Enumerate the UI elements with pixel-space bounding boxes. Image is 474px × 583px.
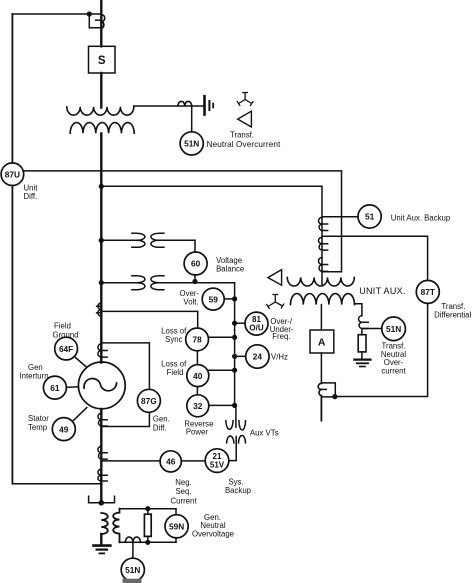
CT generator neutral side (87G lower) xyxy=(98,413,107,426)
wire 78 to bus xyxy=(209,336,235,338)
svg-text:Gen: Gen xyxy=(28,363,43,372)
svg-text:Field: Field xyxy=(54,322,71,331)
label Transf. Differential xyxy=(434,302,471,320)
svg-text:87T: 87T xyxy=(421,287,435,297)
breaker S box xyxy=(89,46,116,73)
wire 64F to generator xyxy=(74,357,86,368)
label Over-/Under-Freq. xyxy=(270,317,294,341)
transformer unit aux HV winding xyxy=(287,277,354,286)
svg-text:Temp: Temp xyxy=(28,423,48,432)
CT generator neutral (87U return) xyxy=(98,469,107,481)
svg-text:46: 46 xyxy=(166,457,176,467)
svg-text:O/U: O/U xyxy=(249,324,263,333)
svg-text:59N: 59N xyxy=(169,522,184,532)
svg-text:Seq.: Seq. xyxy=(175,487,191,496)
CT generator neutral (to 46) xyxy=(98,446,107,459)
svg-text:Neg.: Neg. xyxy=(175,478,191,487)
svg-text:Sync: Sync xyxy=(165,335,182,344)
svg-text:51: 51 xyxy=(365,212,375,222)
wire 21/51V to aux VT xyxy=(229,443,236,461)
wire bus to 81 xyxy=(235,322,245,324)
svg-text:51V: 51V xyxy=(210,461,225,470)
relay 46 negative sequence xyxy=(160,451,181,472)
svg-text:Current: Current xyxy=(171,496,198,505)
wye symbol (GSU HV) xyxy=(237,93,253,106)
junction dot xyxy=(232,296,237,301)
junction dot xyxy=(232,321,237,326)
wire 87U bottom return xyxy=(12,483,101,485)
wire 40 to bus xyxy=(209,369,235,371)
junction dot xyxy=(145,540,150,545)
relay 78 loss of sync xyxy=(186,328,209,351)
CT unit aux neutral (to 51N) xyxy=(359,316,369,329)
relay 87T transformer differential xyxy=(416,280,439,303)
svg-text:Volt.: Volt. xyxy=(183,297,198,306)
label Gen. Diff. xyxy=(153,414,170,432)
label Voltage Balance xyxy=(216,256,244,273)
svg-text:Transf.: Transf. xyxy=(230,131,254,140)
wire to 59N xyxy=(175,509,177,543)
svg-text:Diff.: Diff. xyxy=(24,192,38,201)
svg-text:current: current xyxy=(381,366,406,375)
relay 49 stator temperature xyxy=(52,418,75,441)
wire CT to relay 51N xyxy=(362,328,382,330)
VT 2 (relay bus) xyxy=(101,276,234,290)
relay 40 loss of field xyxy=(187,365,209,387)
svg-text:Aux VTs: Aux VTs xyxy=(250,428,279,437)
junction dot xyxy=(232,368,237,373)
VT 1 (to 60 voltage balance) xyxy=(101,233,195,252)
svg-text:87G: 87G xyxy=(141,396,157,406)
transformer GSU HV winding xyxy=(67,107,134,115)
label Transf. Neutral Over- current xyxy=(381,342,407,376)
relay 51N transf neutral overcurrent (unit aux) xyxy=(382,317,406,341)
label Stator Temp xyxy=(28,414,49,432)
label Neg. Seq. Current xyxy=(171,478,198,506)
relay 24 V/Hz xyxy=(246,345,269,368)
svg-text:60: 60 xyxy=(191,259,201,269)
page crop artifact below 51N xyxy=(123,579,142,583)
wire secondary top rail xyxy=(120,508,177,510)
label Loss of Sync xyxy=(161,327,187,345)
ground (generator neutral) xyxy=(94,546,111,554)
relay 59N generator neutral overvoltage xyxy=(165,515,188,538)
relay 81 over/under frequency xyxy=(245,312,268,335)
wire 46 to 21/51V xyxy=(181,460,205,462)
generator neutral bracket xyxy=(89,496,115,503)
wire 87T to A-branch CT xyxy=(335,303,428,396)
relay 21/51V system backup xyxy=(205,449,229,473)
svg-text:Interturn: Interturn xyxy=(20,372,49,381)
svg-text:64F: 64F xyxy=(59,344,73,354)
label Gen Interturn xyxy=(20,363,49,381)
relay 60 voltage balance xyxy=(184,252,207,275)
svg-text:S: S xyxy=(98,55,106,67)
svg-text:40: 40 xyxy=(193,371,203,381)
delta symbol (unit aux HV) xyxy=(268,270,282,286)
label Sys. Backup xyxy=(225,478,252,496)
wire 87U zone upper return to unit aux xyxy=(23,171,341,272)
wire unit aux feeder stub xyxy=(320,397,322,421)
wire 61 to generator xyxy=(66,386,78,389)
svg-text:Freq.: Freq. xyxy=(272,332,290,341)
relay 51N generator neutral overcurrent xyxy=(121,558,144,581)
svg-text:UNIT AUX.: UNIT AUX. xyxy=(359,286,406,296)
grounding transformer secondary xyxy=(113,509,119,543)
relay 32 reverse power xyxy=(187,395,209,417)
generator sine wave xyxy=(84,378,117,391)
svg-text:Power: Power xyxy=(186,428,209,437)
wire 78 to 40 xyxy=(196,351,198,365)
svg-text:59: 59 xyxy=(209,294,219,304)
ground (unit aux neutral) xyxy=(354,360,370,367)
wire 32 to bus xyxy=(209,404,235,406)
svg-text:Differential: Differential xyxy=(434,311,471,320)
label Field Ground xyxy=(52,322,78,340)
junction dot xyxy=(232,403,237,408)
wire CT to relay 78 xyxy=(101,311,197,328)
svg-text:78: 78 xyxy=(192,335,202,345)
junction dot xyxy=(232,354,237,359)
wire unit aux LV to grounding CT branch xyxy=(354,304,362,316)
junction dot xyxy=(99,280,104,285)
svg-text:A: A xyxy=(318,336,326,348)
junction dot xyxy=(99,184,104,189)
label Loss of Field xyxy=(161,360,187,378)
resistor (grounding secondary) xyxy=(144,514,151,536)
transformer unit aux LV winding xyxy=(291,294,355,305)
wire bus to 59 xyxy=(224,298,234,300)
svg-text:Diff.: Diff. xyxy=(153,423,167,432)
svg-text:Overvoltage: Overvoltage xyxy=(192,530,234,539)
wire bus to 24 xyxy=(235,355,246,357)
wire CT to relay 51N xyxy=(191,106,193,132)
svg-text:Ground: Ground xyxy=(52,331,78,340)
CT unit aux feeder CT2 (to 87T) xyxy=(319,237,328,250)
relay 51N transformer neutral overcurrent xyxy=(180,132,203,155)
wire secondary bottom rail xyxy=(120,541,177,543)
wire CT1 to relay 51 xyxy=(322,216,358,218)
CT GSU neutral xyxy=(178,101,192,106)
svg-text:61: 61 xyxy=(50,383,60,393)
svg-text:Backup: Backup xyxy=(225,486,252,495)
svg-text:Balance: Balance xyxy=(216,264,244,273)
ground (GSU neutral, horizontal) xyxy=(205,96,214,114)
junction dot xyxy=(87,11,92,16)
svg-text:Gen.: Gen. xyxy=(153,414,170,423)
CT grounding secondary (to 51N) xyxy=(125,537,140,542)
breaker A box xyxy=(310,330,334,353)
wire A box to CT xyxy=(320,353,322,383)
svg-text:32: 32 xyxy=(193,401,203,411)
wire main generator lead vertical xyxy=(100,0,102,545)
junction dot xyxy=(232,335,237,340)
generator xyxy=(78,362,125,409)
relay 61 generator interturn xyxy=(43,376,66,399)
svg-text:51N: 51N xyxy=(125,565,140,575)
resistor (unit aux grounding) xyxy=(358,335,366,352)
label Gen. Neutral Overvoltage xyxy=(192,513,234,539)
wire CT to 87G xyxy=(101,343,149,389)
wire 87U left vertical (lower) xyxy=(11,186,13,484)
wire CT to relay 46 xyxy=(101,460,160,462)
wire unit aux LV to A box xyxy=(320,305,322,330)
CT A-branch (87T zone) xyxy=(318,383,335,397)
label Unit Diff. xyxy=(24,184,39,202)
wire CT2 to 87T xyxy=(322,236,428,280)
grounding transformer primary xyxy=(101,513,108,534)
CT generator lead (to 78) xyxy=(97,303,102,316)
junction dot xyxy=(192,279,197,284)
CT unit aux feeder CT3 (87U return) xyxy=(319,258,328,272)
svg-text:51N: 51N xyxy=(386,324,401,334)
wire GSU neutral to ground xyxy=(134,105,205,107)
CT unit aux feeder CT1 (to 51) xyxy=(318,217,327,230)
wire CT to resistor xyxy=(361,329,363,335)
wye symbol (unit aux LV) xyxy=(267,295,284,309)
junction dot xyxy=(145,506,150,511)
wire CT3 to 87U zone line xyxy=(322,271,342,273)
wire VT bus vertical xyxy=(234,283,236,406)
wire 87U CT secondary to left edge xyxy=(12,13,101,15)
relay 87U unit differential xyxy=(1,163,24,186)
svg-text:Neutral Overcurrent: Neutral Overcurrent xyxy=(207,140,281,149)
svg-text:Stator: Stator xyxy=(28,414,49,423)
label Reverse Power xyxy=(184,420,213,437)
relay 64F field ground xyxy=(55,337,78,360)
wire unit aux feeder tap xyxy=(101,186,322,285)
wire resistor to ground xyxy=(361,352,363,360)
VT aux (sys backup supply) xyxy=(226,405,246,443)
wire 87U left vertical (upper) xyxy=(11,14,13,163)
svg-text:V/Hz: V/Hz xyxy=(271,353,288,362)
relay 87G generator differential xyxy=(137,389,160,412)
relay 59 overvoltage xyxy=(202,288,224,310)
label Transf. Neutral Overcurrent xyxy=(207,131,281,150)
label Over- Volt. xyxy=(180,289,200,307)
delta symbol (GSU LV) xyxy=(238,111,252,127)
wire 49 to generator xyxy=(73,408,87,421)
wire 87G to lower CT xyxy=(101,412,149,426)
junction dot xyxy=(99,500,105,506)
relay 51 unit aux backup xyxy=(358,205,381,228)
svg-text:87U: 87U xyxy=(5,169,20,179)
wire 60 to VT2 bus xyxy=(194,275,196,282)
svg-text:24: 24 xyxy=(253,352,263,362)
junction dot xyxy=(332,394,337,399)
wire CT to 51N xyxy=(132,542,134,558)
CT generator lead (87G upper) xyxy=(98,344,107,357)
svg-text:51N: 51N xyxy=(184,139,199,149)
transformer GSU LV winding xyxy=(70,123,134,134)
wire resistor taps xyxy=(147,509,149,543)
svg-text:Field: Field xyxy=(167,368,184,377)
junction dot xyxy=(99,238,104,243)
svg-text:49: 49 xyxy=(59,424,69,434)
CT top (87U zone, above breaker S) xyxy=(89,14,104,28)
wire 40 to 32 xyxy=(196,387,198,395)
svg-text:Unit Aux. Backup: Unit Aux. Backup xyxy=(391,213,451,222)
